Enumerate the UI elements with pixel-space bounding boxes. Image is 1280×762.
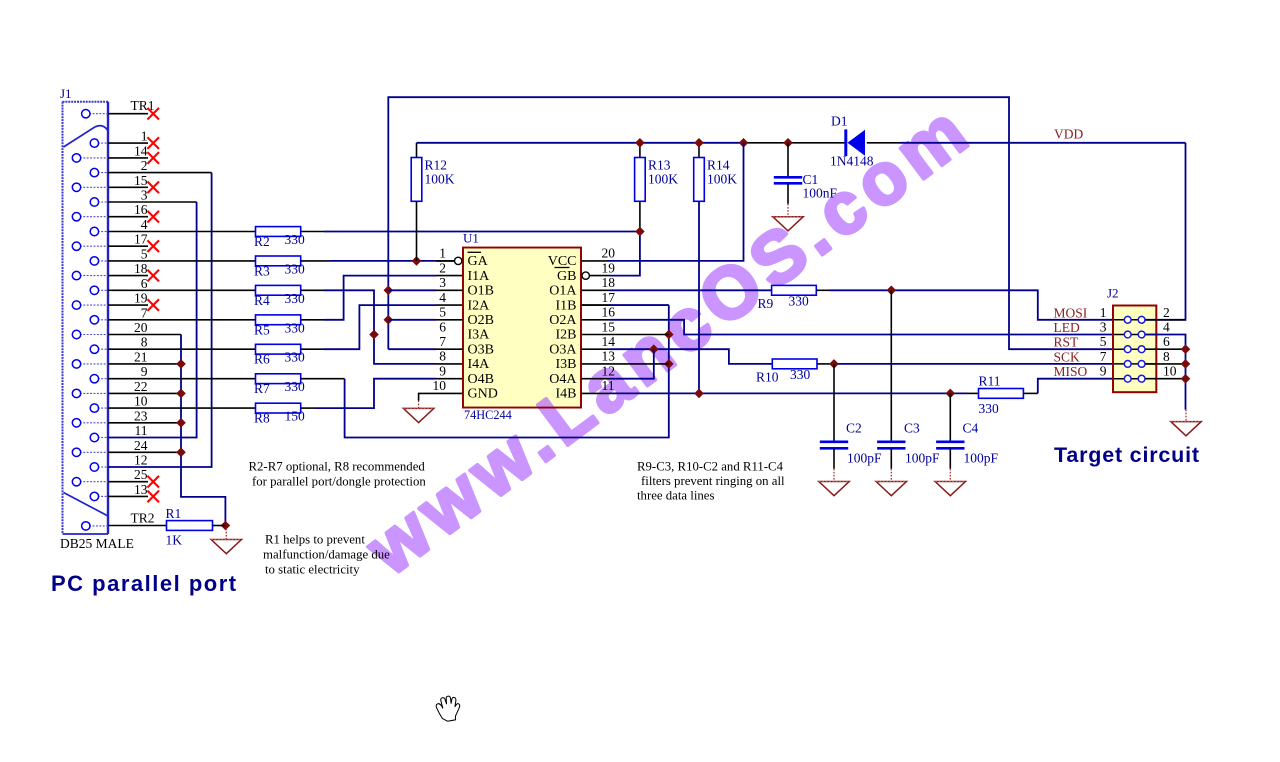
svg-text:D1: D1: [831, 114, 848, 129]
svg-text:1: 1: [1100, 305, 1107, 320]
svg-text:O4A: O4A: [549, 372, 577, 387]
svg-text:100pF: 100pF: [847, 451, 882, 466]
svg-text:R12: R12: [425, 158, 448, 173]
label R10 value 330: [790, 367, 811, 382]
svg-text:VDD: VDD: [1054, 127, 1083, 142]
wire J1 to R4: [108, 289, 256, 291]
label R2 value 330: [285, 232, 306, 247]
wire I1B corner: [581, 304, 669, 306]
J1 pin circles: [72, 110, 98, 531]
resistor R10: [772, 359, 830, 369]
wire MISO net (I4B to R11): [581, 389, 979, 399]
U1 pin 1 GA bubble and stub: [436, 257, 462, 264]
wire GB net riser: [589, 227, 644, 276]
wire R11 to J2 pin9: [1038, 379, 1113, 394]
svg-text:19: 19: [134, 291, 148, 306]
svg-text:U1: U1: [463, 231, 479, 246]
svg-text:PC parallel port: PC parallel port: [51, 571, 238, 596]
wire J1 to R5: [108, 319, 256, 321]
label R9 value 330: [789, 294, 810, 309]
svg-text:DB25 MALE: DB25 MALE: [60, 536, 134, 551]
svg-text:R13: R13: [648, 158, 671, 173]
resistor R14: [694, 143, 705, 394]
capacitor C3: [877, 290, 905, 468]
svg-text:TR2: TR2: [131, 510, 155, 525]
resistor R12: [411, 143, 422, 261]
svg-text:330: 330: [285, 350, 306, 365]
svg-text:GND: GND: [468, 387, 498, 402]
svg-text:24: 24: [134, 438, 148, 453]
svg-text:O3B: O3B: [468, 342, 494, 357]
U1 VCC underline: [555, 267, 570, 269]
resistor R2: [256, 227, 301, 237]
svg-text:I4B: I4B: [556, 387, 577, 402]
svg-text:SCK: SCK: [1054, 349, 1081, 364]
wire TR2 to R1: [108, 525, 167, 527]
svg-text:100K: 100K: [707, 172, 737, 187]
svg-text:330: 330: [285, 261, 306, 276]
resistor R5: [256, 315, 301, 325]
svg-text:18: 18: [602, 275, 616, 290]
label R14: [707, 158, 730, 173]
resistor R6: [256, 344, 301, 354]
wire ground chain J1 pins 20-24: [108, 335, 230, 531]
wire VDD to J2 pin2: [1146, 143, 1186, 320]
svg-text:9: 9: [439, 364, 446, 379]
svg-text:J2: J2: [1107, 286, 1119, 301]
capacitor C4: [936, 393, 964, 468]
wire R4 to I3A/I4A: [301, 290, 463, 364]
svg-text:100nF: 100nF: [803, 186, 838, 201]
svg-text:O3A: O3A: [549, 342, 577, 357]
label J2: [1107, 286, 1119, 301]
svg-text:malfunction/damage due: malfunction/damage due: [263, 548, 390, 562]
title PC parallel port: [51, 571, 238, 596]
resistor R11: [979, 389, 1038, 399]
connector J2 body fill: [1113, 306, 1156, 393]
svg-text:R7: R7: [254, 381, 270, 396]
wire VDD rail: [417, 138, 1186, 148]
wire O1A to R9: [581, 289, 772, 291]
svg-text:I1B: I1B: [556, 298, 577, 313]
svg-text:7: 7: [141, 305, 148, 320]
svg-text:R8: R8: [254, 411, 270, 426]
wire J1 to R6: [108, 348, 256, 350]
label R3 value 330: [285, 261, 306, 276]
svg-text:to static electricity: to static electricity: [265, 563, 360, 577]
label R11 value 330: [979, 401, 1000, 416]
ground under C4: [935, 469, 965, 496]
resistor R13: [635, 143, 646, 232]
wire J1 to R2: [108, 231, 256, 233]
svg-text:7: 7: [439, 334, 446, 349]
label C4: [963, 421, 979, 436]
label R12 value 100K: [425, 172, 455, 187]
svg-text:6: 6: [141, 276, 148, 291]
svg-text:GA: GA: [468, 254, 489, 269]
svg-text:100pF: 100pF: [964, 451, 999, 466]
svg-text:150: 150: [285, 409, 306, 424]
unconnected pin stub wires: [108, 114, 148, 497]
svg-text:10: 10: [1163, 364, 1177, 379]
svg-text:25: 25: [134, 467, 148, 482]
label C4 value 100pF: [964, 451, 999, 466]
svg-text:18: 18: [134, 261, 148, 276]
wire R3 to GA: [301, 260, 455, 262]
svg-text:15: 15: [602, 319, 616, 334]
svg-text:O1A: O1A: [549, 284, 577, 299]
hand cursor: [436, 696, 460, 721]
svg-text:74HC244: 74HC244: [464, 408, 512, 422]
wire O3A/O4A tie: [581, 344, 772, 378]
label C2: [846, 421, 862, 436]
junction GA/R12: [412, 256, 422, 266]
wire J2 pin2 stub: [1146, 319, 1186, 321]
svg-text:R5: R5: [254, 322, 270, 337]
label R7: [254, 381, 270, 396]
svg-text:1: 1: [141, 129, 148, 144]
label U1: [463, 231, 479, 246]
svg-text:330: 330: [979, 401, 1000, 416]
svg-text:2: 2: [439, 260, 446, 275]
wire SCK net: [829, 359, 1113, 369]
svg-text:100pF: 100pF: [905, 451, 940, 466]
wire R7 to I1B/I2B/I3B: [301, 305, 674, 437]
label C2 value 100pF: [847, 451, 882, 466]
svg-text:R11: R11: [979, 374, 1001, 389]
label C3: [904, 421, 920, 436]
note ringing filters: [637, 460, 785, 503]
svg-text:9: 9: [141, 364, 148, 379]
U1 left pin names: [468, 254, 498, 402]
svg-text:R9: R9: [758, 296, 774, 311]
wire RST rail (top): [383, 97, 1113, 349]
J2 pin circles: [1124, 316, 1145, 382]
svg-text:20: 20: [602, 246, 616, 261]
label R6: [254, 352, 270, 367]
label 1N4148: [830, 154, 874, 169]
label 74HC244: [464, 408, 512, 422]
wire R6 to I2A: [301, 305, 463, 349]
wire I3B stub: [581, 363, 669, 365]
svg-text:1N4148: 1N4148: [830, 154, 874, 169]
svg-text:I4A: I4A: [468, 357, 491, 372]
svg-text:15: 15: [134, 173, 148, 188]
label R14 value 100K: [707, 172, 737, 187]
diode D1 1N4148: [846, 129, 865, 156]
svg-text:R1 helps to prevent: R1 helps to prevent: [265, 533, 365, 547]
connector J1 DB25 outline: [63, 102, 109, 534]
ground under J2: [1171, 410, 1201, 436]
svg-text:R1: R1: [166, 506, 182, 521]
J1 pin leads: [77, 114, 109, 526]
svg-text:5: 5: [439, 305, 446, 320]
label R10: [756, 370, 779, 385]
label R9: [758, 296, 774, 311]
svg-text:C3: C3: [904, 421, 920, 436]
resistor R7: [256, 374, 301, 384]
svg-text:I3A: I3A: [468, 328, 491, 343]
svg-text:Target circuit: Target circuit: [1054, 443, 1200, 467]
capacitor C1: [774, 143, 802, 204]
svg-text:11: 11: [135, 423, 148, 438]
label R4 value 330: [285, 291, 306, 306]
svg-text:3: 3: [1100, 320, 1107, 335]
svg-text:2: 2: [141, 158, 148, 173]
svg-text:23: 23: [134, 408, 148, 423]
label R7 value 330: [285, 379, 306, 394]
svg-text:17: 17: [134, 232, 148, 247]
resistor R8: [256, 403, 301, 413]
wire O1B stub: [388, 289, 463, 291]
svg-text:330: 330: [285, 379, 306, 394]
svg-text:RST: RST: [1054, 335, 1080, 350]
svg-text:4: 4: [141, 217, 148, 232]
svg-text:12: 12: [134, 453, 148, 468]
U1 right pin numbers: [602, 246, 616, 394]
wire LED net (O2A): [581, 320, 1113, 335]
svg-text:1K: 1K: [166, 533, 183, 548]
svg-text:C2: C2: [846, 421, 862, 436]
wire VCC riser: [581, 143, 744, 261]
svg-text:I2A: I2A: [468, 298, 491, 313]
svg-text:16: 16: [134, 202, 148, 217]
svg-text:16: 16: [602, 305, 616, 320]
svg-text:330: 330: [285, 232, 306, 247]
wire U1 GND pin: [419, 393, 463, 400]
label R5 value 330: [285, 320, 306, 335]
label R13 value 100K: [648, 172, 678, 187]
ground under C1: [773, 204, 803, 231]
resistor R3: [256, 256, 301, 266]
wire J1 to R3: [108, 260, 256, 262]
label R6 value 330: [285, 350, 306, 365]
svg-text:R14: R14: [707, 158, 730, 173]
J1 pin number labels: [131, 98, 155, 525]
svg-text:O2A: O2A: [549, 313, 577, 328]
label VDD: [1054, 127, 1083, 142]
svg-text:I2B: I2B: [556, 328, 577, 343]
svg-text:LED: LED: [1054, 320, 1080, 335]
J2 left pin numbers: [1100, 305, 1107, 379]
ground under C2: [819, 469, 849, 496]
label R4: [254, 293, 270, 308]
svg-text:17: 17: [602, 290, 616, 305]
svg-text:330: 330: [285, 320, 306, 335]
U1 right pin names: [548, 254, 578, 402]
capacitor C2: [820, 364, 848, 469]
svg-text:4: 4: [439, 290, 446, 305]
svg-text:5: 5: [141, 246, 148, 261]
svg-text:for parallel port/dongle prote: for parallel port/dongle protection: [252, 475, 426, 489]
label R1 value 1K: [166, 533, 183, 548]
wire MOSI net: [830, 285, 1113, 319]
svg-text:330: 330: [285, 291, 306, 306]
wire J1 to R8: [108, 407, 256, 409]
svg-text:10: 10: [433, 378, 447, 393]
svg-text:O1B: O1B: [468, 284, 494, 299]
ground under C3: [876, 469, 906, 496]
svg-text:GB: GB: [557, 269, 576, 284]
svg-text:I3B: I3B: [556, 357, 577, 372]
U1 left pin numbers: [433, 246, 447, 394]
svg-text:330: 330: [789, 294, 810, 309]
title Target circuit: [1054, 443, 1200, 467]
svg-text:19: 19: [602, 260, 616, 275]
svg-text:100K: 100K: [425, 172, 455, 187]
svg-text:O4B: O4B: [468, 372, 494, 387]
svg-text:11: 11: [602, 378, 615, 393]
wire I2B stub: [581, 334, 669, 336]
svg-text:22: 22: [134, 379, 148, 394]
label R12: [425, 158, 448, 173]
svg-text:three data lines: three data lines: [637, 489, 714, 503]
note R2-R7 optional: [249, 460, 427, 489]
label C1: [803, 172, 819, 187]
svg-text:20: 20: [134, 320, 148, 335]
resistor R9: [772, 285, 830, 295]
label R8: [254, 411, 270, 426]
label R11: [979, 374, 1001, 389]
U1 GA overline: [468, 251, 482, 253]
ground under R1: [211, 529, 241, 554]
svg-text:13: 13: [134, 482, 148, 497]
svg-text:MISO: MISO: [1054, 364, 1088, 379]
wire O2B stub: [388, 319, 463, 321]
connector J2 border: [1113, 306, 1156, 393]
svg-text:9: 9: [1100, 364, 1107, 379]
J2 row wires: [1113, 320, 1156, 379]
no-connect X marks: [147, 108, 159, 502]
label R5: [254, 322, 270, 337]
svg-text:R10: R10: [756, 370, 779, 385]
svg-text:R3: R3: [254, 263, 270, 278]
U1 pin 19 GB bubble: [582, 272, 589, 279]
svg-text:5: 5: [1100, 334, 1107, 349]
resistor R1: [167, 521, 226, 531]
svg-text:3: 3: [439, 275, 446, 290]
label D1: [831, 114, 848, 129]
svg-text:100K: 100K: [648, 172, 678, 187]
note R1 static: [263, 533, 390, 577]
svg-text:21: 21: [134, 349, 148, 364]
label C3 value 100pF: [905, 451, 940, 466]
ground under U1: [403, 401, 433, 423]
svg-text:10: 10: [134, 394, 148, 409]
svg-text:C4: C4: [963, 421, 979, 436]
label R2: [254, 234, 270, 249]
svg-text:R9-C3, R10-C2 and R11-C4: R9-C3, R10-C2 and R11-C4: [637, 460, 784, 474]
IC U1 74HC244 body fill: [463, 248, 581, 408]
svg-text:R6: R6: [254, 352, 270, 367]
svg-text:O2B: O2B: [468, 313, 494, 328]
svg-text:MOSI: MOSI: [1054, 305, 1088, 320]
J2 signal labels: [1054, 305, 1088, 379]
svg-text:8: 8: [141, 335, 148, 350]
svg-text:12: 12: [602, 364, 616, 379]
J2 right pin numbers: [1163, 305, 1177, 379]
svg-text:6: 6: [1163, 334, 1170, 349]
wire net D1 loopback (J1 pin3 to pin11): [108, 202, 197, 438]
svg-text:6: 6: [439, 319, 446, 334]
resistor R4: [256, 285, 301, 295]
svg-text:4: 4: [1163, 320, 1170, 335]
svg-text:J1: J1: [60, 86, 72, 101]
label R1: [166, 506, 182, 521]
svg-text:8: 8: [439, 349, 446, 364]
label C1 value 100nF: [803, 186, 838, 201]
label J1: [60, 86, 72, 101]
svg-text:13: 13: [602, 349, 616, 364]
svg-text:14: 14: [134, 143, 148, 158]
svg-text:330: 330: [790, 367, 811, 382]
svg-text:14: 14: [602, 334, 616, 349]
svg-text:2: 2: [1163, 305, 1170, 320]
wire R5 to I1A: [301, 276, 463, 320]
svg-text:1: 1: [439, 246, 446, 261]
svg-text:R2: R2: [254, 234, 270, 249]
wire R2 to GB junction: [301, 231, 640, 233]
label R3: [254, 263, 270, 278]
wire J1 to R7: [108, 378, 256, 380]
svg-text:R4: R4: [254, 293, 270, 308]
svg-text:filters prevent ringing on all: filters prevent ringing on all: [641, 474, 785, 488]
svg-text:R2-R7 optional, R8 recommended: R2-R7 optional, R8 recommended: [249, 460, 426, 474]
IC U1 74HC244 border: [463, 248, 581, 408]
label R13: [648, 158, 671, 173]
watermark www.LancOS.com: [351, 87, 987, 591]
label R8 value 150: [285, 409, 306, 424]
svg-text:8: 8: [1163, 349, 1170, 364]
svg-text:3: 3: [141, 188, 148, 203]
wire net D0 loopback (J1 pin2 to pin12): [108, 173, 212, 467]
wire J2 ground pins 4-6-8-10: [1146, 335, 1191, 410]
label DB25 MALE: [60, 536, 134, 551]
svg-text:I1A: I1A: [468, 269, 491, 284]
wire R8 to O4B: [301, 379, 463, 408]
svg-text:7: 7: [1100, 349, 1107, 364]
